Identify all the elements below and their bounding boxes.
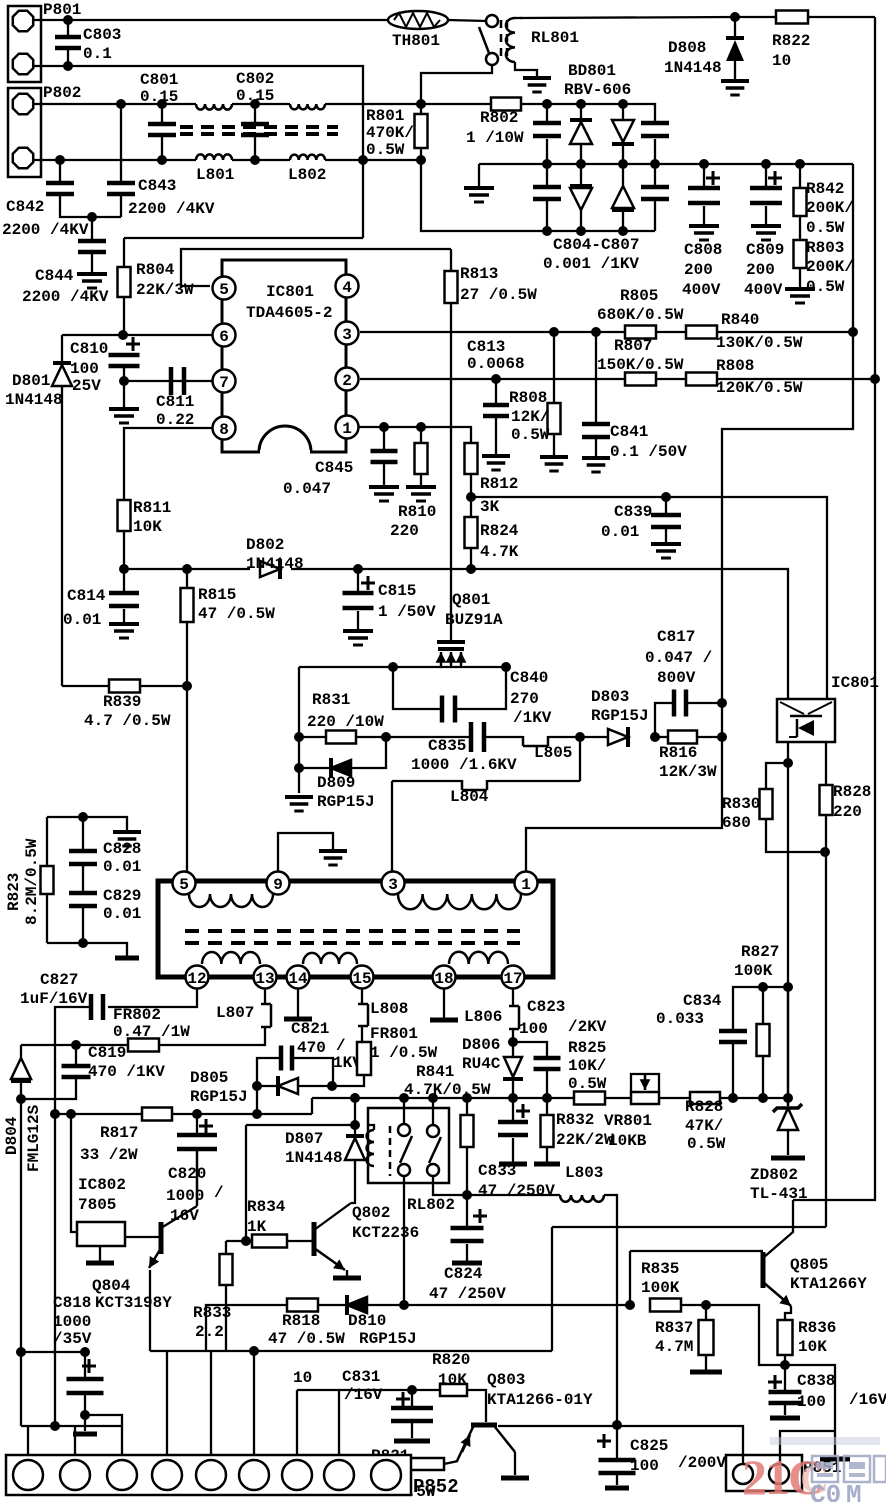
svg-text:C819: C819 xyxy=(88,1044,126,1062)
wire IC802 out xyxy=(125,1236,160,1238)
label R823 xyxy=(5,838,41,925)
diode bridge D-d xyxy=(612,164,634,231)
svg-text:R802: R802 xyxy=(480,109,518,127)
node C808 top xyxy=(699,159,709,169)
pin T9 xyxy=(267,872,290,895)
pin T17 xyxy=(502,966,525,989)
node ZD802 top xyxy=(783,1093,793,1103)
winding primary 3-1 xyxy=(398,894,521,909)
node bus x55 xyxy=(50,1109,60,1119)
svg-text:C821: C821 xyxy=(291,1020,329,1038)
svg-text:D804: D804 xyxy=(3,1116,21,1155)
svg-text:R803: R803 xyxy=(806,239,844,257)
node R835 left xyxy=(625,1300,635,1310)
ground under R803 xyxy=(785,289,815,303)
wire Q804 emitter xyxy=(149,1270,151,1351)
ground under C844 xyxy=(77,274,107,288)
node fb-R827 xyxy=(783,982,793,992)
svg-text:25V: 25V xyxy=(72,377,101,395)
watermark gray2 xyxy=(770,1437,880,1502)
pin T5 xyxy=(173,872,196,895)
resistor R808b xyxy=(509,332,568,471)
svg-text:D809: D809 xyxy=(317,774,355,792)
diode D803 xyxy=(580,688,649,747)
svg-text:C839: C839 xyxy=(614,503,652,521)
node R827 top xyxy=(758,982,768,992)
node C818 bot xyxy=(80,1410,90,1420)
svg-text:R828: R828 xyxy=(685,1098,723,1116)
wire conn stub4 xyxy=(166,1351,168,1455)
svg-text:13: 13 xyxy=(255,970,274,988)
resistor R820 xyxy=(432,1351,470,1396)
svg-text:/35V: /35V xyxy=(53,1330,92,1348)
svg-text:L803: L803 xyxy=(565,1164,603,1182)
node R808b top xyxy=(549,327,559,337)
svg-text:P802: P802 xyxy=(43,84,81,102)
wire C818 gnd xyxy=(73,1415,97,1434)
wire R821 line xyxy=(389,1455,458,1464)
svg-text:C843: C843 xyxy=(138,177,176,195)
resistor R818 xyxy=(268,1299,345,1349)
wire conn stub8 xyxy=(338,1390,340,1455)
svg-text:1uF/16V: 1uF/16V xyxy=(20,990,88,1008)
capacitor C828 xyxy=(69,817,141,876)
wire Q801 source xyxy=(299,666,506,668)
svg-text:0.01: 0.01 xyxy=(103,905,141,923)
node R831 right xyxy=(381,732,391,742)
svg-text:IC802: IC802 xyxy=(78,1176,126,1194)
node mid d2 xyxy=(618,159,628,169)
pin 1 xyxy=(336,416,359,439)
svg-text:R840: R840 xyxy=(721,311,759,329)
node bridge top d1 xyxy=(576,99,586,109)
svg-text:2200 /4KV: 2200 /4KV xyxy=(128,200,215,218)
node R801 bottom xyxy=(416,155,426,165)
resistor R813 xyxy=(445,249,538,569)
svg-text:Q801: Q801 xyxy=(452,591,490,609)
svg-text:D807: D807 xyxy=(285,1130,323,1148)
label Q801 xyxy=(445,591,503,629)
node filter-P801N xyxy=(358,155,368,165)
diode D805 xyxy=(190,1069,333,1106)
node R824 bottom xyxy=(466,564,476,574)
svg-text:4.7 /0.5W: 4.7 /0.5W xyxy=(84,712,171,730)
svg-text:0.047 /: 0.047 / xyxy=(645,649,712,667)
capacitor C841 xyxy=(582,332,610,472)
node opto-R830 xyxy=(783,758,793,768)
svg-text:RGP15J: RGP15J xyxy=(317,793,375,811)
potentiometer VR801 xyxy=(604,1074,659,1150)
svg-text:C809: C809 xyxy=(746,241,784,259)
svg-text:C820: C820 xyxy=(168,1165,206,1183)
node R831 left xyxy=(294,732,304,742)
svg-text:/200V: /200V xyxy=(678,1454,726,1472)
svg-text:R842: R842 xyxy=(806,180,844,198)
mosfet Q801 xyxy=(436,569,467,667)
resistor R835 xyxy=(641,1260,706,1312)
wire pin18 xyxy=(430,988,458,1020)
svg-text:100K: 100K xyxy=(641,1279,680,1297)
svg-text:12K/3W: 12K/3W xyxy=(659,763,717,781)
svg-text:150K/0.5W: 150K/0.5W xyxy=(597,356,684,374)
svg-text:0.01: 0.01 xyxy=(103,858,141,876)
svg-text:12: 12 xyxy=(187,970,206,988)
resistor R836 xyxy=(778,1306,837,1365)
svg-text:D803: D803 xyxy=(591,688,629,706)
svg-text:1000 /1.6KV: 1000 /1.6KV xyxy=(411,756,517,774)
pin 4 xyxy=(336,275,359,298)
diode D810 xyxy=(347,1295,417,1348)
svg-text:C817: C817 xyxy=(657,628,695,646)
svg-text:16V: 16V xyxy=(170,1207,199,1225)
svg-text:P801: P801 xyxy=(43,1,81,19)
svg-text:R832: R832 xyxy=(556,1111,594,1129)
wire R823 top xyxy=(47,817,127,830)
relay RL801 switch xyxy=(479,15,498,65)
svg-text:Q803: Q803 xyxy=(487,1371,525,1389)
svg-text:R839: R839 xyxy=(103,693,141,711)
svg-text:FR802: FR802 xyxy=(113,1006,161,1024)
svg-text:8: 8 xyxy=(219,421,229,439)
diode bridge D-a xyxy=(570,104,592,164)
svg-text:9: 9 xyxy=(273,876,283,894)
svg-text:C835: C835 xyxy=(428,737,466,755)
node C823 bot xyxy=(542,1093,552,1103)
svg-text:C831: C831 xyxy=(342,1368,380,1386)
svg-text:220: 220 xyxy=(390,522,419,540)
svg-text:C814: C814 xyxy=(67,587,106,605)
node sw feed xyxy=(350,1093,360,1103)
node bridge bot d1 xyxy=(576,226,586,236)
winding primary 5-9 xyxy=(189,894,273,907)
svg-text:R828: R828 xyxy=(833,783,871,801)
capacitor C845 xyxy=(283,427,399,501)
watermark red xyxy=(742,1449,829,1502)
resistor R810 xyxy=(390,427,436,540)
svg-text:L806: L806 xyxy=(464,1008,502,1026)
IC801 box xyxy=(222,260,346,452)
svg-text:470: 470 xyxy=(297,1039,326,1057)
resistor R840 xyxy=(686,311,803,352)
svg-text:D802: D802 xyxy=(246,536,284,554)
svg-text:D806: D806 xyxy=(462,1036,500,1054)
node D803 right xyxy=(650,732,660,742)
pin 2 xyxy=(336,368,359,391)
svg-text:L805: L805 xyxy=(534,744,572,762)
svg-text:R807: R807 xyxy=(614,337,652,355)
svg-text:C829: C829 xyxy=(103,887,141,905)
svg-text:RGP15J: RGP15J xyxy=(359,1330,417,1348)
inductor L802 xyxy=(288,104,326,184)
svg-text:R817: R817 xyxy=(100,1124,138,1142)
svg-text:100: 100 xyxy=(797,1393,826,1411)
capacitor C817 xyxy=(645,628,722,737)
resistor R804 xyxy=(118,238,195,335)
svg-text:RBV-606: RBV-606 xyxy=(564,81,631,99)
svg-text:BD801: BD801 xyxy=(568,62,616,80)
node R836 bot xyxy=(780,1360,790,1370)
svg-text:17: 17 xyxy=(503,970,522,988)
diode D806 xyxy=(462,1036,523,1097)
wire relay drive xyxy=(245,1125,247,1241)
wire opto pin left xyxy=(787,742,789,1106)
svg-text:KCT3198Y: KCT3198Y xyxy=(95,1294,172,1312)
node R827 bot xyxy=(758,1093,768,1103)
wire Q805 base col xyxy=(629,1251,631,1305)
node D809 left xyxy=(294,763,304,773)
svg-text:1N4148: 1N4148 xyxy=(246,555,304,573)
diode D804 xyxy=(3,1045,43,1172)
wire x55 bottom xyxy=(54,1114,56,1426)
resistor R817 xyxy=(80,1108,172,1165)
svg-text:12K/: 12K/ xyxy=(511,408,549,426)
svg-text:47 /0.5W: 47 /0.5W xyxy=(268,1330,345,1348)
svg-text:0.1 /50V: 0.1 /50V xyxy=(610,443,687,461)
node C818 branch xyxy=(80,1347,90,1357)
svg-text:C844: C844 xyxy=(35,267,74,285)
wire Q804 line xyxy=(150,1350,552,1352)
label Q803 xyxy=(487,1371,593,1409)
wire D805 to out xyxy=(256,1086,258,1114)
capacitor C844 xyxy=(22,217,109,306)
svg-text:1N4148: 1N4148 xyxy=(285,1149,343,1167)
connector P851 xyxy=(726,1455,841,1491)
wire D804 col down xyxy=(20,1099,22,1426)
svg-text:FMLG12S: FMLG12S xyxy=(25,1104,43,1172)
resistor R808 xyxy=(686,357,803,397)
svg-text:/: / xyxy=(336,1037,346,1055)
capacitor C833 xyxy=(478,1098,555,1200)
wire pin17 col xyxy=(509,988,519,1042)
svg-text:4.7K/0.5W: 4.7K/0.5W xyxy=(404,1081,491,1099)
svg-text:R825: R825 xyxy=(568,1039,606,1057)
node C802 top xyxy=(250,99,260,109)
wire out 1415 xyxy=(85,1415,122,1455)
label C813 xyxy=(467,338,525,373)
svg-text:/16V: /16V xyxy=(849,1391,886,1409)
node C844 xyxy=(87,212,97,222)
node D805-out xyxy=(252,1109,262,1119)
svg-text:R808: R808 xyxy=(509,389,547,407)
svg-text:R837: R837 xyxy=(655,1319,693,1337)
svg-text:/2KV: /2KV xyxy=(568,1018,607,1036)
wire R839 line xyxy=(62,685,187,687)
wire P801 bottom xyxy=(33,66,363,238)
svg-text:RGP15J: RGP15J xyxy=(591,707,649,725)
node R834 left xyxy=(241,1236,251,1246)
svg-text:C818: C818 xyxy=(53,1294,91,1312)
wire pin14 xyxy=(284,988,362,1072)
connector P801 xyxy=(8,1,81,82)
node R839-R815 xyxy=(182,681,192,691)
node bridge top d2 xyxy=(618,99,628,109)
svg-text:C825: C825 xyxy=(630,1437,668,1455)
node R815 top xyxy=(182,564,192,574)
node C841 top xyxy=(591,327,601,337)
winding sec 14-15 xyxy=(303,953,357,964)
svg-text:680K/0.5W: 680K/0.5W xyxy=(597,306,684,324)
node C828 top xyxy=(78,812,88,822)
wire D802 line xyxy=(124,569,788,699)
diode bridge D-b xyxy=(612,104,634,164)
wire pin6 xyxy=(62,334,212,336)
svg-text:C802: C802 xyxy=(236,70,274,88)
transformer T801 box xyxy=(158,881,553,977)
svg-text:C827: C827 xyxy=(40,971,78,989)
capacitor C821b xyxy=(257,1046,333,1087)
node sw2 top xyxy=(428,1093,438,1103)
resistor R837 xyxy=(655,1305,722,1372)
resistor R815 xyxy=(181,569,276,686)
pin T12 xyxy=(186,966,209,989)
capacitor C834 xyxy=(656,992,747,1097)
node C831 top xyxy=(407,1385,417,1395)
relay RL802 box xyxy=(368,1108,455,1214)
label R841 xyxy=(404,1063,491,1099)
wire C831 line xyxy=(297,1389,467,1391)
capacitor C840 xyxy=(393,667,552,727)
capacitor C835 xyxy=(386,722,523,752)
svg-text:RL801: RL801 xyxy=(531,29,579,47)
svg-text:C803: C803 xyxy=(83,26,121,44)
svg-text:C824: C824 xyxy=(444,1265,483,1283)
relay switch 1 xyxy=(398,1098,412,1305)
capacitor C839 xyxy=(601,497,681,558)
svg-text:D801: D801 xyxy=(12,372,50,390)
wire right bus x875 xyxy=(874,17,876,378)
node x55 conn xyxy=(50,1421,60,1431)
label BD801 xyxy=(564,62,631,99)
node mid c2 xyxy=(650,159,660,169)
svg-text:0.22: 0.22 xyxy=(156,411,194,429)
wire filter bottom xyxy=(33,159,421,161)
wire C825-P851 xyxy=(617,1426,743,1463)
wire bridge input top xyxy=(421,103,491,105)
svg-text:1N4148: 1N4148 xyxy=(664,59,722,77)
svg-text:/16V: /16V xyxy=(344,1386,383,1404)
diode bridge D-c xyxy=(570,164,592,231)
svg-text:7: 7 xyxy=(219,374,229,392)
wire feedback 497 xyxy=(471,497,827,699)
resistor R802 xyxy=(466,98,524,148)
pin 5 xyxy=(213,277,236,300)
node C829 bottom xyxy=(78,938,88,948)
wire IC802 in xyxy=(71,1114,77,1232)
resistor R842 xyxy=(794,164,855,237)
node D807 top xyxy=(350,1120,360,1130)
capacitor C824 xyxy=(429,1195,506,1303)
svg-text:5: 5 xyxy=(179,876,189,894)
svg-text:10: 10 xyxy=(772,52,791,70)
svg-text:2200 /4KV: 2200 /4KV xyxy=(22,288,109,306)
resistor R841 xyxy=(461,1098,474,1195)
node R818 wire relay xyxy=(399,1300,409,1310)
svg-text:D808: D808 xyxy=(668,39,706,57)
svg-text:1 /0.5W: 1 /0.5W xyxy=(370,1044,438,1062)
svg-text:C823: C823 xyxy=(527,998,565,1016)
ground C828 right xyxy=(113,832,141,846)
label ZD802 xyxy=(750,1166,808,1203)
wire P851 pin2 xyxy=(780,1431,835,1463)
label C841 xyxy=(610,423,687,461)
svg-text:2.2: 2.2 xyxy=(195,1323,224,1341)
wire pin7 xyxy=(124,380,212,382)
capacitor C804 xyxy=(533,104,561,164)
svg-text:0.5W: 0.5W xyxy=(511,426,550,444)
transistor Q802 xyxy=(314,1203,419,1278)
svg-text:TH801: TH801 xyxy=(392,32,440,50)
svg-text:R820: R820 xyxy=(432,1351,470,1369)
node mid c1 xyxy=(542,159,552,169)
wire D807 bracket xyxy=(246,1098,355,1125)
node x55 cross xyxy=(16,1347,26,1357)
node R841 top xyxy=(462,1093,472,1103)
capacitor C809 xyxy=(744,164,784,299)
label IC801 opto xyxy=(831,674,879,692)
svg-text:R841: R841 xyxy=(416,1063,454,1081)
ground under D808 xyxy=(721,81,749,95)
svg-text:15: 15 xyxy=(352,970,371,988)
pin T13 xyxy=(254,966,277,989)
svg-text:18: 18 xyxy=(434,970,453,988)
svg-text:C841: C841 xyxy=(610,423,648,441)
capacitor C814 xyxy=(63,569,139,638)
node D805 right xyxy=(327,1081,337,1091)
winding sec 12-13 xyxy=(202,952,260,964)
svg-text:R801: R801 xyxy=(366,107,404,125)
svg-text:R822: R822 xyxy=(772,32,810,50)
svg-text:130K/0.5W: 130K/0.5W xyxy=(716,334,803,352)
svg-text:6: 6 xyxy=(219,328,229,346)
node C839 top xyxy=(661,492,671,502)
svg-text:C828: C828 xyxy=(103,840,141,858)
svg-text:200K/: 200K/ xyxy=(806,199,854,217)
wire conn bus 1426 xyxy=(21,1425,122,1427)
diode D801 xyxy=(5,335,72,686)
wire R835 out xyxy=(706,1305,785,1365)
node C801 bottom xyxy=(157,155,167,165)
svg-text:0.15: 0.15 xyxy=(236,87,274,105)
resistor R816 xyxy=(655,731,722,782)
svg-text:33 /2W: 33 /2W xyxy=(80,1146,138,1164)
resistor R803 xyxy=(794,216,855,296)
svg-text:C813: C813 xyxy=(467,338,505,356)
node P802-C842 xyxy=(55,155,65,165)
svg-text:C833: C833 xyxy=(478,1162,516,1180)
node R833 bot xyxy=(249,1346,259,1356)
watermark gray1 xyxy=(812,1456,886,1482)
svg-text:0.15: 0.15 xyxy=(140,88,178,106)
svg-text:R827: R827 xyxy=(741,943,779,961)
wire pin5 bus xyxy=(181,249,451,286)
resistor R828a xyxy=(820,742,872,1227)
svg-text:C808: C808 xyxy=(684,241,722,259)
wire conn stub6 xyxy=(253,1351,255,1455)
resistor R828b xyxy=(685,1092,726,1153)
svg-text:IC801: IC801 xyxy=(831,674,879,692)
transformer core dashes xyxy=(180,127,338,134)
node C843 top xyxy=(116,99,126,109)
diode D809 xyxy=(299,737,386,811)
wire Q805 collector xyxy=(793,379,875,1200)
svg-text:400V: 400V xyxy=(744,281,783,299)
svg-text:R833: R833 xyxy=(193,1304,231,1322)
ground under RL801 xyxy=(523,78,551,92)
svg-text:C815: C815 xyxy=(378,582,416,600)
svg-text:VR801: VR801 xyxy=(604,1112,652,1130)
svg-text:KTA1266-01Y: KTA1266-01Y xyxy=(487,1391,593,1409)
svg-text:C834: C834 xyxy=(683,992,722,1010)
